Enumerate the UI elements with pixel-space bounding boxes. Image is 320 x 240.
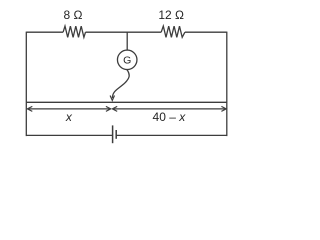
wire top-middle segment [86, 31, 162, 33]
battery long plate [112, 125, 114, 143]
wire galvanometer stem [126, 32, 128, 50]
galvanometer G circle [117, 50, 137, 70]
arrowhead right of x span [106, 106, 111, 111]
wire left edge [25, 32, 27, 137]
svg-text:x: x [65, 110, 73, 124]
arrowhead of jockey pointer [110, 96, 114, 101]
svg-text:G: G [123, 55, 131, 67]
resistor R1 8ohm [63, 26, 85, 37]
svg-text:8 Ω: 8 Ω [64, 8, 83, 22]
resistor R2 12ohm [161, 26, 185, 37]
arrowhead right of 40-x span [221, 106, 226, 111]
dimension line 40-x span [112, 108, 226, 110]
arrowhead left of 40-x span [112, 106, 117, 111]
battery short plate [115, 130, 117, 139]
arrowhead left of x span [27, 106, 32, 111]
svg-text:12 Ω: 12 Ω [158, 8, 184, 22]
wire right edge [226, 32, 228, 137]
wire bridge (slide wire) [26, 101, 227, 103]
wire bottom-right segment [116, 134, 227, 136]
dimension line x span [27, 108, 110, 110]
wire top-left segment [26, 31, 63, 33]
wire bottom-left segment [26, 134, 112, 136]
wire top-right segment [185, 31, 227, 33]
wire jockey curved arrow from G [112, 70, 129, 98]
svg-text:40 – x: 40 – x [153, 110, 187, 124]
